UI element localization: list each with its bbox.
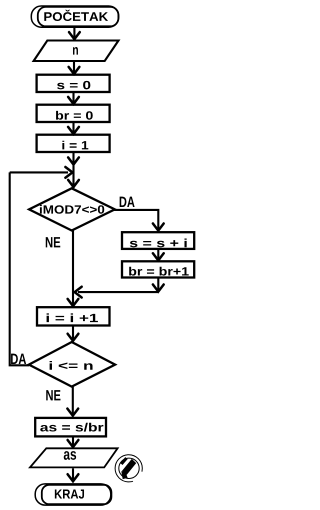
wire i=i+1 to decision 2 [72,326,74,342]
label iMOD7<>0 [40,205,104,214]
label i = 1 [62,141,88,150]
watermark logo glyph diagonal [122,459,136,475]
input parallelogram n [34,41,119,62]
process box i = i +1 [37,307,110,325]
label n [73,47,78,55]
decision diamond i <= n [29,342,115,387]
label as = s/br [40,423,103,432]
label NE (below decision 1) [46,237,61,247]
wire input to s=0 [73,62,75,73]
process box i = 1 [37,135,110,152]
watermark logo inner circle [119,458,139,478]
arrow into decision 1 [68,180,79,187]
label NE (below decision 2) [46,390,60,400]
wire DA loopback: left and up [10,172,29,365]
label br = 0 [56,111,93,120]
wire terminal to input [73,28,75,38]
wire decision2 to as=s/br [72,387,74,416]
wire br=0 to i=1 [72,123,74,134]
terminal POCETAK inner outline [38,7,119,26]
process box br = 0 [37,105,110,122]
label s = 0 [57,81,90,89]
wire br=br+1 down to merge line [157,278,159,291]
wire i=1 down to loop junction [72,153,74,189]
wire DA branch: right then down to s=s+i [114,210,158,230]
watermark logo outer ring gap [133,472,142,482]
label i <= n [50,361,93,370]
output parallelogram as [30,448,118,467]
wire as=s/br to output [72,437,74,446]
wire s=0 to br=0 [72,93,74,104]
process box s = 0 [37,75,110,92]
wire s=s+i to br=br+1 [157,249,159,260]
terminal KRAJ inner outline [42,485,112,504]
label s = s + i [130,239,187,248]
terminal POCETAK outer outline [31,6,118,27]
process box br = br+1 [122,261,194,277]
label DA (loop branch) [11,354,26,364]
label KRAJ [55,490,84,499]
label i = i +1 [47,313,98,322]
wire output to KRAJ [72,468,74,480]
process box as = s/br [35,418,106,437]
label POCETAK [44,10,108,21]
watermark logo glyph foot [121,471,127,479]
label as [64,451,76,460]
watermark logo glyph bar [120,457,128,465]
watermark logo outer ring [115,455,142,482]
loopback wire top segment [10,171,68,173]
decision diamond iMOD7<>0 [29,188,115,230]
label DA (right branch) [120,197,135,207]
merge wire back to main line [78,291,158,293]
wire decision1 bottom to i=i+1 [72,231,74,307]
label br = br+1 [129,267,189,276]
process box s = s + i [122,232,194,249]
terminal KRAJ outer outline [35,484,111,505]
